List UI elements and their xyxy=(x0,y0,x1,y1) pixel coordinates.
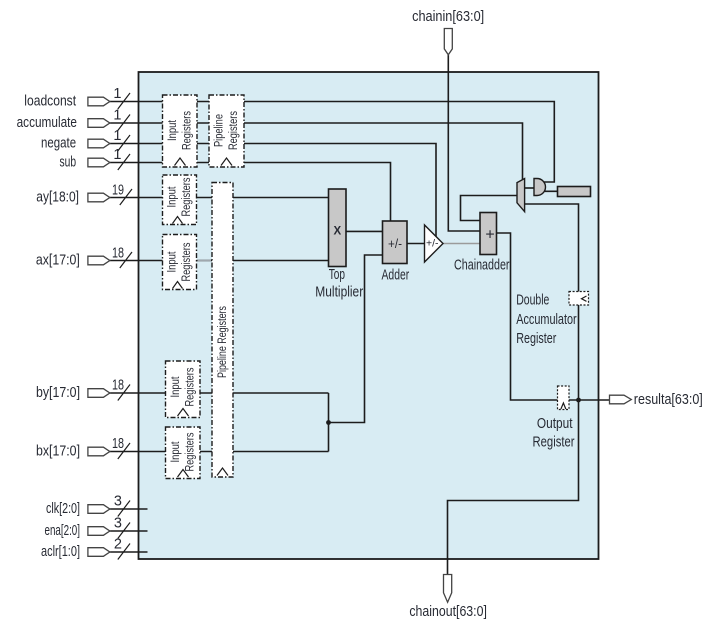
wire chainout xyxy=(448,400,579,575)
svg-text:bx[17:0]: bx[17:0] xyxy=(36,444,80,460)
svg-text:ax[17:0]: ax[17:0] xyxy=(36,253,80,269)
systolic register bar xyxy=(558,187,591,197)
slash clk xyxy=(118,501,130,517)
svg-text:Registers: Registers xyxy=(184,432,196,471)
wire bx xyxy=(109,451,329,453)
and gate (D shape) xyxy=(534,179,546,196)
port chainin arrow xyxy=(444,29,452,55)
svg-text:ena[2:0]: ena[2:0] xyxy=(45,523,81,539)
svg-text:Input: Input xyxy=(167,119,179,141)
wire accumulate xyxy=(109,123,523,180)
pin accumulate xyxy=(88,119,110,128)
pin clk xyxy=(88,505,110,514)
svg-text:aclr[1:0]: aclr[1:0] xyxy=(41,544,80,560)
svg-text:+: + xyxy=(485,226,494,243)
register bank: tall pipeline registers xyxy=(212,183,233,478)
adder xyxy=(383,221,408,264)
svg-text:2: 2 xyxy=(114,537,122,553)
svg-text:Output: Output xyxy=(537,416,573,432)
slash ay xyxy=(120,189,132,205)
wire ax grey bypass segment xyxy=(198,260,212,262)
wire sub xyxy=(109,163,391,223)
svg-text:Registers: Registers xyxy=(181,111,193,150)
svg-text:Register: Register xyxy=(516,331,556,347)
slash ax xyxy=(120,252,132,268)
label Output Register xyxy=(533,416,575,451)
svg-text:19: 19 xyxy=(112,183,124,199)
label Top Multiplier xyxy=(315,267,363,301)
svg-text:3: 3 xyxy=(114,516,122,532)
svg-text:chainin[63:0]: chainin[63:0] xyxy=(412,9,484,25)
svg-text:Register: Register xyxy=(533,435,575,451)
svg-text:chainout[63:0]: chainout[63:0] xyxy=(409,604,487,620)
wire by-bx merge vertical xyxy=(328,393,330,452)
wire and-gate to systolic register bar xyxy=(541,190,558,192)
pin sub xyxy=(88,158,110,167)
register bank: by input registers xyxy=(166,361,201,418)
pin loadconst xyxy=(88,97,110,106)
slash by xyxy=(118,385,130,401)
svg-text:Input: Input xyxy=(170,376,182,398)
wire mux to and-gate xyxy=(525,187,534,189)
wire junction to adder lower input xyxy=(329,255,383,423)
wire ay xyxy=(109,197,329,199)
svg-text:by[17:0]: by[17:0] xyxy=(36,385,80,401)
slash bx xyxy=(118,443,130,459)
slash sub xyxy=(118,154,130,170)
svg-text:+/-: +/- xyxy=(388,236,402,251)
svg-text:Registers: Registers xyxy=(181,242,193,281)
chainadder xyxy=(480,213,497,255)
svg-text:18: 18 xyxy=(112,246,124,262)
wire multiplier output xyxy=(346,230,383,232)
svg-text:Input: Input xyxy=(170,441,182,463)
svg-text:negate: negate xyxy=(41,136,76,152)
svg-text:Accumulator: Accumulator xyxy=(516,312,577,328)
svg-text:Pipeline Registers: Pipeline Registers xyxy=(217,306,229,378)
svg-text:sub: sub xyxy=(60,155,77,171)
double accumulator register box xyxy=(569,292,589,306)
pin ena xyxy=(88,527,110,536)
svg-text:resulta[63:0]: resulta[63:0] xyxy=(634,392,703,408)
svg-text:X: X xyxy=(333,226,341,238)
svg-text:3: 3 xyxy=(114,494,122,510)
svg-text:Chainadder: Chainadder xyxy=(454,258,510,274)
wire chainin xyxy=(448,55,480,231)
register bank: bx input registers xyxy=(166,427,201,479)
wire clk stub xyxy=(109,508,148,510)
svg-text:Input: Input xyxy=(167,251,179,273)
svg-text:ay[18:0]: ay[18:0] xyxy=(36,190,79,206)
wire loadconst xyxy=(109,102,554,183)
svg-text:1: 1 xyxy=(113,86,121,102)
svg-text:Input: Input xyxy=(167,186,179,208)
multiplier xyxy=(329,189,347,267)
register bank: ax input registers xyxy=(163,235,197,290)
wire accumulator feedback xyxy=(525,204,579,400)
junction by-bx xyxy=(326,420,331,425)
accumulate mux xyxy=(517,179,525,212)
svg-text:Multiplier: Multiplier xyxy=(315,285,363,301)
output register box xyxy=(558,386,570,410)
svg-text:Double: Double xyxy=(516,293,549,309)
svg-text:Registers: Registers xyxy=(181,177,193,216)
pin negate xyxy=(88,139,110,148)
wire chainadder output to result xyxy=(497,233,610,400)
pin ax xyxy=(88,256,110,265)
svg-text:18: 18 xyxy=(112,378,124,394)
wire aclr stub xyxy=(109,551,148,553)
wire ax xyxy=(109,260,329,262)
slash ena xyxy=(118,523,130,539)
pin bx xyxy=(88,447,110,456)
rounding triangle xyxy=(425,225,444,262)
register bank: ay input registers xyxy=(163,175,197,225)
label Double Accumulator Register xyxy=(516,293,577,348)
svg-text:1: 1 xyxy=(113,147,121,163)
register bank: control pipeline registers xyxy=(209,95,244,167)
svg-text:1: 1 xyxy=(113,108,121,124)
wire negate xyxy=(109,144,436,239)
wire rounding-to-chainadder (grey) xyxy=(443,243,480,245)
DSP block outline U1 xyxy=(139,72,599,559)
svg-text:accumulate: accumulate xyxy=(17,115,77,131)
svg-text:Pipeline: Pipeline xyxy=(213,114,225,147)
svg-text:Registers: Registers xyxy=(184,367,196,406)
junction output node xyxy=(576,398,581,403)
wire adder output xyxy=(407,243,425,245)
slash loadconst xyxy=(118,93,130,109)
port chainout arrow xyxy=(444,575,452,603)
pin ay xyxy=(88,193,110,202)
wire ena stub xyxy=(109,530,148,532)
svg-text:1: 1 xyxy=(113,128,121,144)
svg-text:Registers: Registers xyxy=(228,111,240,150)
slash accumulate xyxy=(118,115,130,131)
svg-text:loadconst: loadconst xyxy=(24,94,76,110)
pin by xyxy=(88,389,110,398)
svg-text:Adder: Adder xyxy=(382,268,410,284)
pin aclr xyxy=(88,548,110,557)
slash aclr xyxy=(118,544,130,560)
wire mux output to chainadder xyxy=(461,196,518,221)
slash negate xyxy=(118,135,130,151)
svg-text:clk[2:0]: clk[2:0] xyxy=(46,501,80,517)
register bank: control input registers xyxy=(163,95,198,167)
port resulta arrow xyxy=(610,395,632,404)
svg-text:+/-: +/- xyxy=(426,239,439,250)
svg-text:18: 18 xyxy=(112,436,124,452)
wire by xyxy=(109,392,329,394)
svg-text:Top: Top xyxy=(329,267,345,283)
